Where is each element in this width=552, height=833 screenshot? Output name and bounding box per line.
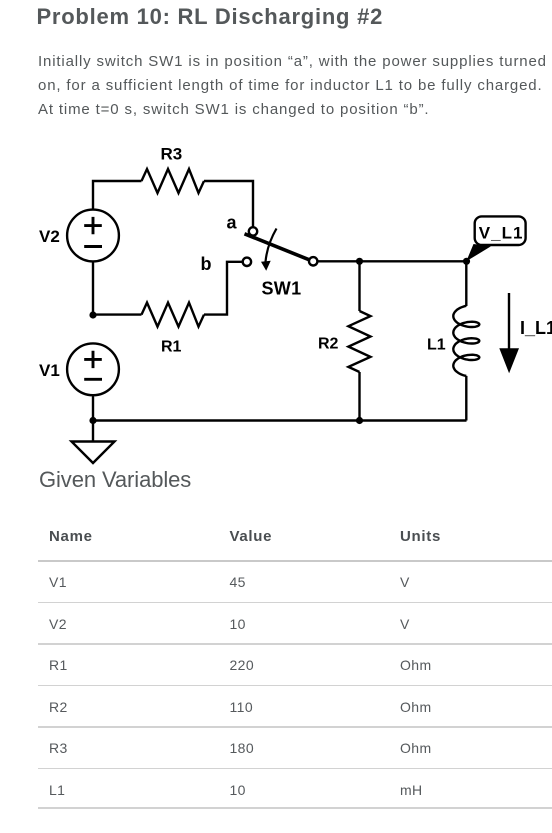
wire: R2 bottom lead [358,372,360,421]
ground [72,421,115,464]
node: R2 top junction [356,258,363,265]
inductor L1 [453,306,479,376]
probe flag V_L1 [466,216,525,261]
svg-text:I_L1: I_L1 [520,318,552,338]
wire: R2 top lead [358,261,360,311]
svg-text:V2: V2 [39,227,60,246]
svg-text:L1: L1 [427,337,446,354]
node: ground junction [89,417,96,424]
svg-text:a: a [227,213,238,233]
terminal a [249,227,257,235]
circuit schematic SVG [0,140,552,470]
svg-text:V1: V1 [39,361,60,380]
svg-text:SW1: SW1 [262,279,302,299]
resistor R1 [142,303,205,327]
svg-text:V_L1: V_L1 [479,224,524,243]
title [37,4,384,30]
node: L1 top junction [463,258,470,265]
node: R2 bottom junction [356,417,363,424]
wire: R1 left lead [93,313,142,315]
terminal b [243,258,251,266]
svg-text:R3: R3 [161,145,183,164]
table: given variables [49,528,93,545]
wire: V1 bottom to ground junction [92,396,94,420]
wire: L1 bottom lead [465,376,467,421]
wire: V2 bottom to R1 junction [92,262,94,315]
current arrow I_L1 [499,293,519,373]
switch SW1 blade [245,234,314,261]
resistor R3 [142,169,205,193]
node: junction V2/R1 [89,311,96,318]
wire: pole to L1 top node [317,260,467,262]
wire: top wire left segment (left rail to R3) [93,181,142,209]
heading Given Variables [39,467,191,493]
wire: bottom rail [93,419,467,421]
svg-text:R2: R2 [318,336,339,353]
paragraph [38,50,547,122]
wire: L1 top lead [465,261,467,306]
wire: top wire right segment (R3 to switch a) [204,181,253,228]
svg-text:R1: R1 [161,339,182,356]
voltage source V1 [67,343,119,395]
resistor R2 [348,311,370,372]
wire: R1 right lead up to b terminal [204,262,242,315]
svg-text:b: b [201,254,212,274]
switch SW1 throw arrow [266,229,277,263]
voltage source V2 [67,210,119,262]
switch SW1 pole [309,257,317,265]
